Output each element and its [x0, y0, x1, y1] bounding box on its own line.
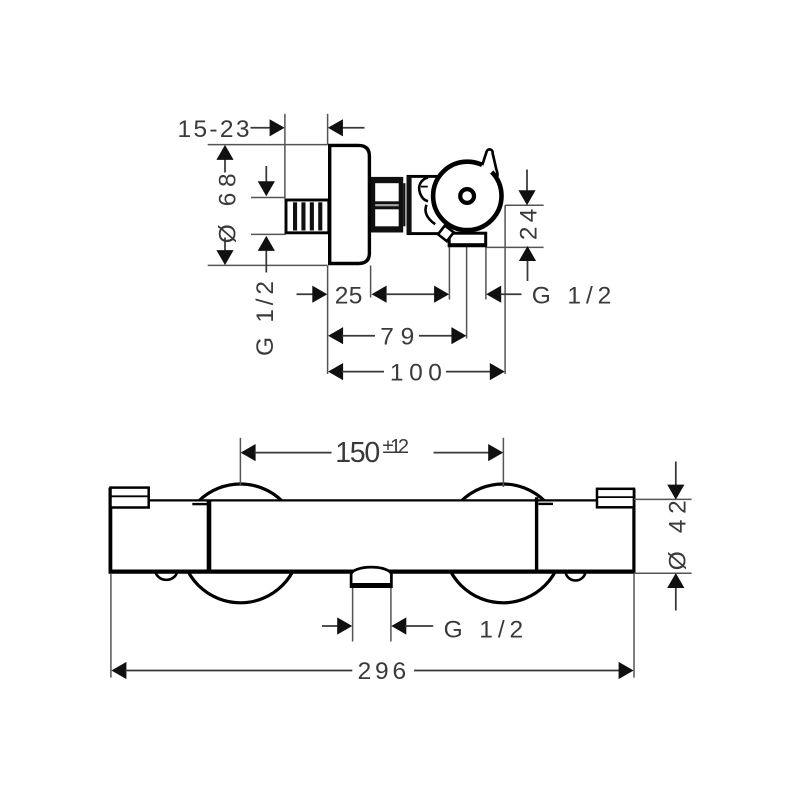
- svg-text:150: 150: [335, 437, 380, 469]
- svg-text:100: 100: [390, 360, 442, 387]
- svg-text:296: 296: [358, 658, 407, 685]
- svg-text:G 1/2: G 1/2: [252, 281, 279, 356]
- svg-text:G 1/2: G 1/2: [532, 282, 612, 309]
- svg-text:25: 25: [335, 282, 363, 309]
- svg-text:15-23: 15-23: [178, 116, 250, 143]
- svg-text:G 1/2: G 1/2: [444, 616, 524, 643]
- svg-text:±12: ±12: [383, 436, 410, 458]
